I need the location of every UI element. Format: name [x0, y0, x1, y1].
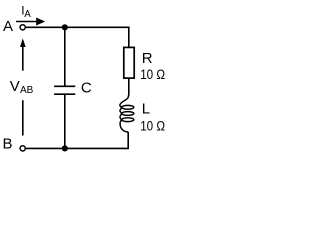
wire capacitor branch upper [64, 27, 66, 86]
svg-text:R: R [142, 50, 153, 67]
current arrow IA [16, 18, 45, 26]
svg-text:V: V [10, 78, 20, 95]
inductor L coil [120, 98, 134, 132]
svg-text:AB: AB [20, 85, 34, 96]
node A terminal [20, 25, 25, 30]
wire top (A to top-right corner, down to resistor) [26, 27, 129, 47]
voltage arrow VAB (upper segment with arrowhead) [20, 38, 26, 70]
svg-text:10 Ω: 10 Ω [140, 67, 165, 83]
junction bottom [62, 145, 68, 151]
svg-text:B: B [3, 135, 13, 152]
svg-text:A: A [3, 18, 13, 35]
voltage arrow VAB (lower segment) [22, 100, 24, 135]
svg-text:C: C [81, 80, 92, 97]
svg-text:10 Ω: 10 Ω [140, 118, 165, 134]
capacitor C top plate [54, 85, 75, 87]
resistor R box [124, 47, 134, 78]
capacitor C bottom plate [54, 93, 75, 95]
wire inductor to bottom wire [127, 132, 129, 149]
svg-text:L: L [142, 100, 150, 117]
node B terminal [20, 146, 25, 151]
wire capacitor branch lower [64, 94, 66, 148]
wire resistor to inductor [128, 78, 130, 94]
junction top [62, 24, 68, 30]
svg-text:A: A [24, 9, 31, 20]
wire bottom (B to bottom-right corner) [26, 147, 128, 149]
